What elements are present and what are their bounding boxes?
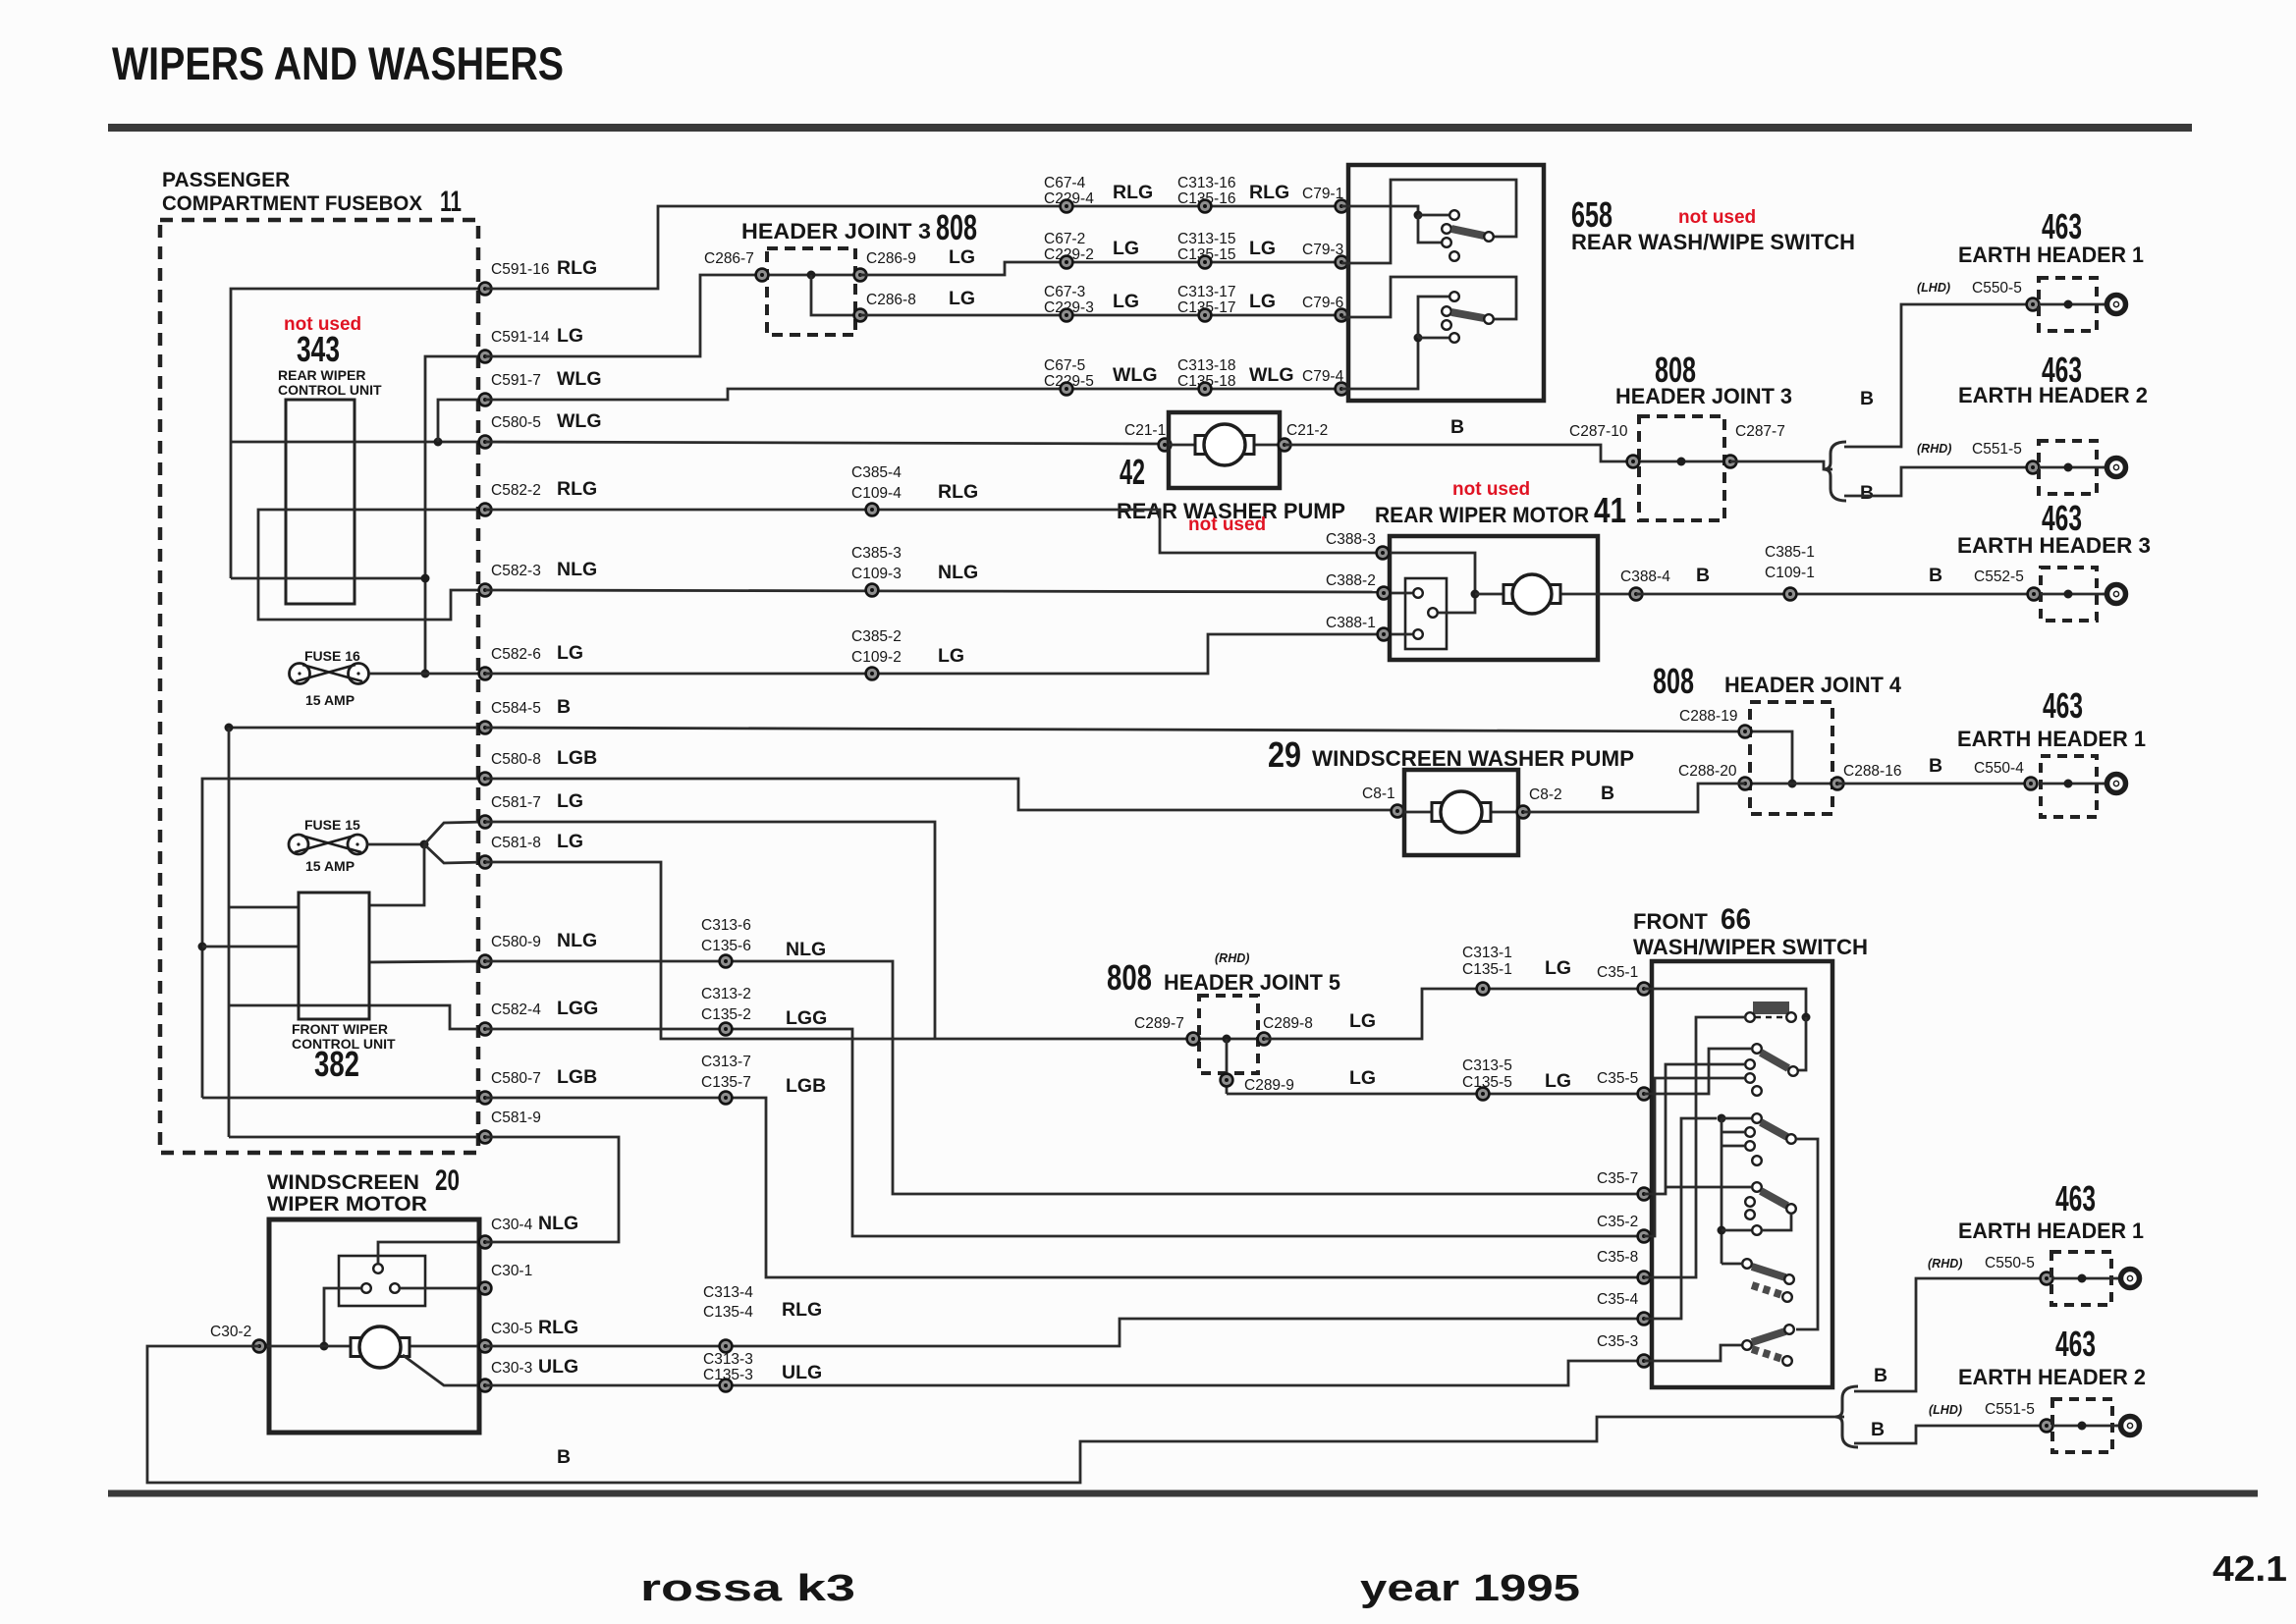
wire branch to C581-9 — [229, 1136, 485, 1139]
wire 66 group3 feed — [1666, 1186, 1752, 1189]
svg-text:WIPER MOTOR: WIPER MOTOR — [267, 1193, 427, 1216]
splice inside EH1 — [2064, 300, 2073, 309]
connector pin C582-2 — [479, 504, 492, 516]
wire fuse15 output — [367, 843, 424, 846]
svg-text:B: B — [557, 696, 571, 718]
header joint 4 (808) — [1750, 702, 1832, 814]
wire pump29 internal — [1404, 811, 1518, 814]
wire C584-5 B row — [229, 727, 485, 730]
svg-text:C313-15: C313-15 — [1177, 231, 1235, 247]
svg-text:NLG: NLG — [938, 562, 978, 583]
svg-text:HEADER JOINT 3: HEADER JOINT 3 — [1615, 384, 1792, 408]
svg-text:658: 658 — [1571, 194, 1613, 235]
wire branch to C591-7 — [438, 400, 485, 442]
svg-text:HEADER JOINT 5: HEADER JOINT 5 — [1164, 970, 1340, 995]
wire 658 lower contact b — [1418, 297, 1449, 338]
bracket split to earth headers — [1824, 442, 1846, 501]
junction at fuse16 row — [421, 670, 430, 678]
connector pin C289-9 — [1221, 1074, 1233, 1087]
svg-text:EARTH HEADER 1: EARTH HEADER 1 — [1957, 727, 2146, 751]
contacts 66 group1 — [1745, 1059, 1762, 1096]
earth symbol EH2 lhd — [2116, 1417, 2140, 1435]
lever 66 group3 — [1752, 1182, 1796, 1214]
svg-text:C135-6: C135-6 — [701, 938, 751, 954]
junction inside HJ3 upper — [807, 271, 816, 280]
svg-text:808: 808 — [1107, 957, 1152, 998]
svg-text:C79-6: C79-6 — [1302, 295, 1343, 311]
wire switch658 upper loop — [1341, 180, 1516, 263]
wire C388-1 inside — [1384, 633, 1412, 636]
splice C385-1/C109-1 — [1784, 588, 1797, 601]
connector pin C21-1 — [1159, 439, 1172, 452]
svg-text:FRONT: FRONT — [1633, 909, 1708, 934]
splice C67-5/C229-5 — [1061, 383, 1073, 396]
wire 66 group4 feed — [1722, 1263, 1743, 1266]
svg-text:C8-1: C8-1 — [1362, 785, 1395, 802]
svg-text:B: B — [1601, 783, 1614, 804]
svg-text:B: B — [1860, 482, 1874, 504]
wire HJ4 through — [1745, 783, 1837, 785]
svg-text:RLG: RLG — [557, 478, 597, 500]
svg-text:C67-4: C67-4 — [1044, 175, 1086, 191]
connector pin C591-7 — [479, 394, 492, 406]
junction 66 dot2 — [1718, 1226, 1726, 1235]
splice inside EH1b — [2064, 780, 2073, 788]
splice inside EH1 rhd — [2078, 1274, 2087, 1283]
svg-text:(RHD): (RHD) — [1917, 442, 1951, 456]
contacts 66 group2 — [1745, 1127, 1762, 1165]
earth header 1 (463) rhd — [2051, 1252, 2111, 1305]
connector pin C287-10 — [1627, 456, 1640, 468]
wire 66 stub 1167 — [1722, 1145, 1745, 1148]
svg-text:C287-10: C287-10 — [1569, 423, 1628, 440]
header joint 3 (808) upper — [767, 248, 855, 335]
junction motor supply — [320, 1342, 329, 1351]
wire C288-16 to earth header 1b — [1837, 783, 2031, 785]
wire LGB C580-7 to C35-8 — [485, 1098, 1644, 1277]
junction fuse15 node — [420, 840, 429, 849]
wire fuse16 output — [369, 673, 485, 676]
svg-text:LGB: LGB — [786, 1075, 826, 1097]
contacts 66 group3 — [1745, 1197, 1762, 1235]
svg-text:808: 808 — [936, 207, 977, 247]
wire switch658 lower loop — [1341, 277, 1516, 319]
svg-text:C591-7: C591-7 — [491, 372, 541, 389]
wire C582-2 loop — [258, 510, 485, 620]
wire fusebox row to C580-5 — [231, 441, 485, 444]
wire RLG C582-2 to motor41 — [485, 510, 1383, 553]
earth symbol EH3 — [2103, 585, 2126, 604]
wire HJ5 drop — [1226, 1039, 1229, 1094]
connector pin C35-5 — [1638, 1088, 1651, 1101]
connector pin C21-2 — [1279, 439, 1291, 452]
wire to unit382 left pin — [202, 946, 300, 948]
connector pin C286-7 — [756, 269, 769, 282]
svg-text:C35-4: C35-4 — [1597, 1291, 1639, 1308]
junction at unit343 row — [421, 574, 430, 583]
svg-text:WASH/WIPER SWITCH: WASH/WIPER SWITCH — [1633, 935, 1868, 959]
connector pin C288-16 — [1831, 778, 1844, 790]
lever 658 upper — [1451, 229, 1494, 242]
svg-text:C550-5: C550-5 — [1972, 280, 2022, 297]
svg-text:WLG: WLG — [1113, 364, 1157, 386]
svg-text:HEADER JOINT 3: HEADER JOINT 3 — [741, 219, 931, 244]
svg-text:LG: LG — [557, 790, 583, 812]
wire fuse15 node to unit382 — [370, 844, 424, 905]
splice inside EH2 lhd — [2078, 1422, 2087, 1431]
svg-text:LG: LG — [949, 288, 975, 309]
svg-text:LG: LG — [949, 246, 975, 268]
wire inside HJ3 upper — [762, 274, 860, 277]
svg-text:463: 463 — [2043, 685, 2083, 726]
svg-text:C109-4: C109-4 — [851, 485, 902, 502]
earth header 3 (463) — [2041, 568, 2097, 621]
connector pin C580-5 — [479, 436, 492, 449]
splice inside EH2 — [2064, 463, 2073, 472]
svg-text:C35-8: C35-8 — [1597, 1249, 1638, 1266]
svg-text:not used: not used — [1678, 207, 1756, 228]
wire LG row2 to switch — [860, 262, 1348, 275]
svg-text:B: B — [1929, 565, 1942, 586]
connector pin C288-20 — [1739, 778, 1752, 790]
earth symbol EH1b — [2103, 775, 2126, 793]
connector pin C388-1 — [1378, 628, 1391, 641]
wire 66 C35-5 to lever1 — [1644, 1049, 1752, 1094]
svg-text:C35-5: C35-5 — [1597, 1070, 1638, 1087]
connector pin C35-1 — [1638, 983, 1651, 996]
contacts 658 upper — [1442, 210, 1459, 261]
windscreen washer pump motor — [1432, 791, 1491, 833]
lever 66 group1 — [1752, 1044, 1798, 1076]
svg-text:not used: not used — [1188, 514, 1266, 535]
svg-text:WLG: WLG — [1249, 364, 1293, 386]
connector pin C552-5 — [2028, 588, 2041, 601]
connector pin C35-4 — [1638, 1313, 1651, 1326]
lever 66 group2 — [1752, 1113, 1796, 1144]
svg-text:RLG: RLG — [557, 257, 597, 279]
svg-text:LG: LG — [557, 642, 583, 664]
connector pin C30-3 — [479, 1380, 492, 1392]
earth symbol EH2 — [2103, 459, 2126, 477]
svg-text:C313-5: C313-5 — [1462, 1057, 1512, 1074]
svg-text:EARTH HEADER 3: EARTH HEADER 3 — [1957, 533, 2151, 558]
wire 66 stub 1153 — [1722, 1131, 1745, 1134]
svg-text:LG: LG — [938, 645, 964, 667]
wire C591-14 to vertical — [425, 356, 485, 674]
wire 66 contact to C35-7 — [1644, 1064, 1745, 1194]
connector pin C30-1 — [479, 1282, 492, 1295]
connector pin C582-3 — [479, 584, 492, 597]
svg-text:C385-4: C385-4 — [851, 464, 902, 481]
connector pin C580-8 — [479, 773, 492, 785]
svg-text:C580-8: C580-8 — [491, 751, 541, 768]
front wiper control unit 382 — [299, 893, 369, 1019]
svg-text:C581-9: C581-9 — [491, 1110, 541, 1126]
svg-text:year 1995: year 1995 — [1360, 1568, 1580, 1609]
svg-text:LG: LG — [557, 325, 583, 347]
wire C287-7 to earth bracket — [1730, 461, 1832, 469]
svg-text:66: 66 — [1721, 903, 1751, 936]
svg-text:WINDSCREEN: WINDSCREEN — [267, 1171, 419, 1194]
connector pin C580-9 — [479, 955, 492, 968]
svg-text:rossa k3: rossa k3 — [640, 1568, 855, 1609]
wire unit382 right to C580-9 — [369, 961, 485, 962]
svg-text:ULG: ULG — [538, 1356, 578, 1378]
svg-text:C30-5: C30-5 — [491, 1321, 532, 1337]
svg-text:C313-2: C313-2 — [701, 986, 751, 1002]
connector pin C550-4 — [2025, 778, 2038, 790]
splice C313-6/C135-6 — [720, 955, 733, 968]
splice C313-16/C135-16 — [1199, 200, 1212, 213]
splice inside EH3 — [2064, 590, 2073, 599]
connector pin C35-8 — [1638, 1272, 1651, 1284]
connector pin C582-6 — [479, 668, 492, 680]
svg-text:LGG: LGG — [557, 998, 598, 1019]
svg-text:B: B — [1929, 755, 1942, 777]
svg-text:C550-5: C550-5 — [1985, 1255, 2035, 1272]
svg-text:C388-4: C388-4 — [1620, 568, 1670, 585]
wire 66 lever1 loop — [1797, 1017, 1806, 1070]
svg-text:C35-2: C35-2 — [1597, 1214, 1638, 1230]
wire inside EH1 — [2039, 303, 2105, 306]
wire LG C581-8 down — [485, 862, 935, 1039]
svg-text:C135-2: C135-2 — [701, 1006, 751, 1023]
svg-text:382: 382 — [314, 1044, 359, 1084]
svg-text:C288-16: C288-16 — [1843, 763, 1901, 780]
wire C580-8 row — [202, 779, 485, 1098]
svg-text:LG: LG — [557, 831, 583, 852]
connector pin C288-19 — [1739, 726, 1752, 738]
wire 66 lever2 to bottom — [1796, 1139, 1818, 1329]
connector pin C30-2 — [253, 1340, 266, 1353]
svg-text:WINDSCREEN WASHER PUMP: WINDSCREEN WASHER PUMP — [1312, 746, 1634, 771]
wire motor to C30-3 — [403, 1355, 485, 1385]
svg-text:CONTROL UNIT: CONTROL UNIT — [278, 382, 382, 398]
svg-text:B: B — [557, 1446, 571, 1468]
wire LG to C289-7 — [935, 1038, 1193, 1041]
wire B to earth header 3 — [1636, 593, 2034, 596]
svg-text:FRONT WIPER: FRONT WIPER — [292, 1021, 388, 1037]
wire 66 C35-3 to lever5 — [1644, 1345, 1743, 1361]
connector pin C582-4 — [479, 1023, 492, 1036]
svg-text:C552-5: C552-5 — [1974, 568, 2024, 585]
splice C313-15/C135-15 — [1199, 256, 1212, 269]
svg-text:C591-16: C591-16 — [491, 261, 549, 278]
connector pin C35-2 — [1638, 1230, 1651, 1243]
wire LG C581-7 down — [485, 822, 935, 1039]
fusebox 11 dashed border — [160, 220, 478, 1153]
wire 66 C35-4 riser — [1644, 1118, 1717, 1319]
svg-text:B: B — [1860, 388, 1874, 409]
svg-text:C30-4: C30-4 — [491, 1217, 533, 1233]
junction HJ3 lower — [1677, 458, 1686, 466]
svg-text:C388-3: C388-3 — [1326, 531, 1376, 548]
svg-text:C135-7: C135-7 — [701, 1074, 751, 1091]
wire inside EH1b — [2041, 783, 2105, 785]
svg-text:42: 42 — [1120, 452, 1145, 492]
wire 658 upper contact a — [1418, 214, 1449, 217]
svg-text:REAR WIPER: REAR WIPER — [278, 367, 365, 383]
svg-text:463: 463 — [2042, 498, 2082, 538]
svg-text:B: B — [1450, 416, 1464, 438]
svg-text:C35-3: C35-3 — [1597, 1333, 1638, 1350]
junction 658 lower — [1414, 334, 1423, 343]
wire switch658 C79-4 feed — [1341, 338, 1418, 389]
rear wiper motor armature — [1503, 574, 1560, 614]
svg-text:COMPARTMENT FUSEBOX: COMPARTMENT FUSEBOX — [162, 192, 422, 215]
header joint 5 (808) — [1199, 996, 1258, 1073]
svg-text:WIPERS AND WASHERS: WIPERS AND WASHERS — [112, 37, 564, 89]
wire RLG C30-5 to C35-4 — [485, 1319, 1644, 1346]
svg-text:NLG: NLG — [538, 1213, 578, 1234]
svg-text:C67-3: C67-3 — [1044, 284, 1085, 300]
wire fuse15 to C581-8 — [424, 844, 485, 863]
svg-text:FUSE 15: FUSE 15 — [304, 817, 360, 833]
svg-text:C35-7: C35-7 — [1597, 1170, 1638, 1187]
wire 658 upper contact b — [1418, 215, 1442, 243]
wire C591-14 to header joint 3 — [485, 275, 762, 356]
svg-text:EARTH HEADER 2: EARTH HEADER 2 — [1958, 1365, 2146, 1389]
svg-text:C313-6: C313-6 — [701, 917, 751, 934]
connector pin C30-5 — [479, 1340, 492, 1353]
svg-text:C286-8: C286-8 — [866, 292, 916, 308]
contacts motor41 — [1413, 588, 1438, 639]
windscreen wiper motor 20 — [269, 1219, 479, 1433]
wire branch to unit382 left — [229, 906, 300, 909]
svg-text:RLG: RLG — [782, 1299, 822, 1321]
wire HJ3 internal drop — [811, 275, 860, 315]
svg-text:WLG: WLG — [557, 410, 601, 432]
junction C580-5/C591-7 branch — [434, 438, 443, 447]
earth symbol EH1 — [2103, 296, 2126, 314]
svg-text:C591-14: C591-14 — [491, 329, 550, 346]
wire stub to EH1 rhd — [1854, 1278, 2047, 1391]
lever 66 group4 (wash) — [1742, 1259, 1794, 1302]
wire C30-1 into park switch — [401, 1287, 485, 1290]
connector pin C35-7 — [1638, 1188, 1651, 1201]
splice C67-2/C229-2 — [1061, 256, 1073, 269]
connector pin C79-6 — [1336, 309, 1348, 322]
svg-text:C286-7: C286-7 — [704, 250, 754, 267]
wire inside EH2 — [2039, 466, 2105, 469]
junction HJ4 — [1788, 780, 1797, 788]
splice C313-1/C135-1 — [1477, 983, 1490, 996]
svg-text:C582-6: C582-6 — [491, 646, 541, 663]
svg-text:C313-4: C313-4 — [703, 1284, 753, 1301]
svg-text:343: 343 — [297, 329, 340, 369]
svg-text:C135-4: C135-4 — [703, 1304, 753, 1321]
svg-text:C30-1: C30-1 — [491, 1263, 532, 1279]
svg-text:LG: LG — [1349, 1010, 1376, 1032]
rear wash/wipe switch 658 — [1348, 165, 1544, 401]
junction 66 group2 feed — [1718, 1114, 1726, 1123]
wire 66 C35-1 feed — [1644, 989, 1806, 1017]
connector pin C581-8 — [479, 856, 492, 869]
fuse F16 — [290, 664, 369, 684]
splice C385-3/C109-3 — [866, 584, 879, 597]
svg-text:C582-3: C582-3 — [491, 563, 541, 579]
wire inside EH1 rhd — [2051, 1277, 2119, 1280]
svg-text:15 AMP: 15 AMP — [305, 692, 355, 708]
splice C313-17/C135-17 — [1199, 309, 1212, 322]
svg-text:HEADER JOINT 4: HEADER JOINT 4 — [1724, 673, 1902, 697]
svg-text:C385-1: C385-1 — [1765, 544, 1815, 561]
svg-text:C580-5: C580-5 — [491, 414, 541, 431]
svg-text:LG: LG — [1113, 238, 1139, 259]
svg-text:C289-9: C289-9 — [1244, 1077, 1294, 1094]
svg-text:463: 463 — [2055, 1178, 2096, 1218]
svg-text:808: 808 — [1653, 661, 1694, 701]
svg-text:C313-17: C313-17 — [1177, 284, 1235, 300]
wire inside EH2 lhd — [2052, 1425, 2119, 1428]
connector pin C79-3 — [1336, 256, 1348, 269]
wire RLG row1 to switch — [485, 206, 1348, 289]
wire C581-9 to C30-4 loop — [485, 1137, 619, 1242]
svg-text:EARTH HEADER 1: EARTH HEADER 1 — [1958, 243, 2144, 267]
svg-text:B: B — [1871, 1419, 1885, 1440]
svg-text:C288-20: C288-20 — [1678, 763, 1737, 780]
svg-text:C580-9: C580-9 — [491, 934, 541, 950]
svg-text:RLG: RLG — [938, 481, 978, 503]
wire WLG C580-5 to pump42 — [485, 442, 1165, 444]
svg-text:ULG: ULG — [782, 1362, 822, 1383]
splice C385-2/C109-2 — [866, 668, 879, 680]
earth header 1 (463) at HJ4 — [2041, 756, 2097, 817]
connector pin C550-5 rhd — [2041, 1272, 2053, 1285]
svg-text:C388-1: C388-1 — [1326, 615, 1376, 631]
svg-text:C580-7: C580-7 — [491, 1070, 541, 1087]
svg-text:LG: LG — [1113, 291, 1139, 312]
connector pin C35-3 — [1638, 1355, 1651, 1368]
fuse F15 — [289, 835, 367, 854]
svg-text:C109-3: C109-3 — [851, 566, 902, 582]
wire park contact to motor node — [324, 1288, 361, 1346]
splice C67-3/C229-3 — [1061, 309, 1073, 322]
svg-text:C21-1: C21-1 — [1124, 422, 1166, 439]
svg-text:C385-3: C385-3 — [851, 545, 902, 562]
svg-text:REAR WASH/WIPE SWITCH: REAR WASH/WIPE SWITCH — [1571, 230, 1855, 254]
junction unit382 left pin — [198, 943, 207, 951]
svg-text:41: 41 — [1594, 490, 1626, 530]
splice C385-4/C109-4 — [866, 504, 879, 516]
svg-text:C313-18: C313-18 — [1177, 357, 1235, 374]
svg-text:C109-1: C109-1 — [1765, 565, 1815, 581]
wire HJ4 internal top — [1745, 731, 1792, 784]
svg-text:15 AMP: 15 AMP — [305, 858, 355, 874]
connector pin C550-5 — [2027, 298, 2040, 311]
svg-text:LG: LG — [1249, 291, 1276, 312]
svg-text:C67-2: C67-2 — [1044, 231, 1085, 247]
splice C313-7/C135-7 — [720, 1092, 733, 1105]
svg-text:not used: not used — [1452, 479, 1530, 500]
intermittent delay resistor — [1745, 1001, 1796, 1022]
rear wiper motor 41 box — [1390, 536, 1598, 660]
svg-text:C551-5: C551-5 — [1972, 441, 2022, 458]
bottom rule — [108, 1490, 2258, 1497]
wire NLG C580-9 to C35-7 — [485, 961, 1644, 1194]
connector pin C591-14 — [479, 351, 492, 363]
wire 66 contact to C35-2 — [1644, 1078, 1745, 1236]
svg-text:LGG: LGG — [786, 1007, 827, 1029]
connector pin C584-5 — [479, 722, 492, 734]
svg-text:(LHD): (LHD) — [1929, 1403, 1962, 1417]
svg-text:463: 463 — [2055, 1324, 2096, 1364]
connector pin C591-16 — [479, 283, 492, 296]
splice C67-4/C229-4 — [1061, 200, 1073, 213]
svg-text:C551-5: C551-5 — [1985, 1401, 2035, 1418]
top rule — [108, 124, 2192, 132]
splice C313-3/C135-3 — [720, 1380, 733, 1392]
